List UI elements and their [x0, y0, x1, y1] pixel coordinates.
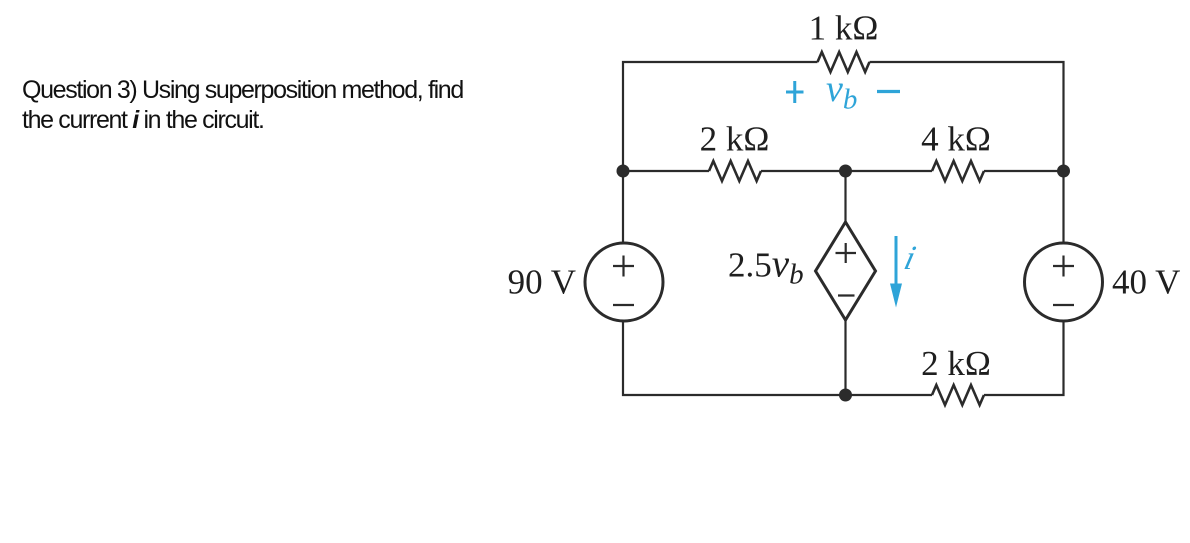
wire middle right segment [984, 170, 1064, 172]
wire middle branch top lead [844, 171, 846, 222]
node D dot [839, 389, 852, 402]
wire left source top lead [622, 171, 624, 243]
source V2 40V circle [1025, 243, 1103, 321]
wire right source top lead [1062, 171, 1064, 243]
svg-text:4 kΩ: 4 kΩ [921, 120, 991, 159]
wire top right [870, 62, 1064, 171]
svg-text:i: i [901, 239, 920, 276]
dependent source U1 diamond [816, 222, 876, 320]
plus sign V2 [1053, 256, 1074, 277]
node C dot [1057, 165, 1070, 178]
resistor R3 4k zigzag [932, 161, 984, 181]
resistor R1 1k zigzag [818, 52, 870, 72]
wire middle center segment [761, 170, 932, 172]
label vb plus sign blue [786, 81, 804, 103]
resistor R4 2k zigzag bottom [932, 385, 984, 405]
svg-text:90 V: 90 V [508, 263, 576, 302]
resistor R2 2k zigzag [709, 161, 761, 181]
svg-text:2 kΩ: 2 kΩ [700, 120, 770, 159]
svg-text:2 kΩ: 2 kΩ [921, 344, 991, 383]
svg-text:40 V: 40 V [1112, 263, 1180, 302]
wire left source bottom lead [623, 321, 932, 395]
current arrow i [890, 236, 902, 308]
plus sign V1 [613, 256, 634, 277]
wire bottom right [984, 321, 1064, 395]
svg-text:vb: vb [826, 68, 857, 116]
minus sign U1 [838, 294, 855, 296]
svg-text:1 kΩ: 1 kΩ [809, 9, 879, 48]
wire middle left segment [623, 170, 709, 172]
label vb minus sign blue [877, 90, 900, 93]
minus sign V1 [613, 304, 634, 306]
wire middle branch bottom lead [844, 320, 846, 395]
node A dot [617, 165, 630, 178]
minus sign V2 [1053, 304, 1074, 306]
question text [22, 75, 542, 135]
node B dot [839, 165, 852, 178]
wire top left [623, 62, 818, 171]
source V1 90V circle [585, 243, 663, 321]
plus sign U1 [836, 243, 857, 263]
svg-text:2.5vb: 2.5vb [728, 243, 804, 291]
